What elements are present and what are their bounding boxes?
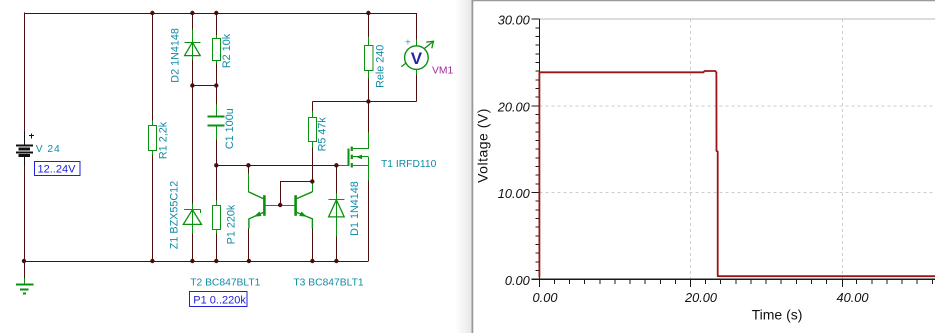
- value box 12..24V: [35, 162, 81, 176]
- svg-text:20.00: 20.00: [497, 99, 531, 114]
- diode D2 1N4148: [184, 13, 200, 86]
- wire top rail: [24, 13, 416, 15]
- label D1 1N4148: [349, 181, 361, 236]
- potentiometer P1 220k: [213, 165, 221, 261]
- svg-text:VM1: VM1: [432, 65, 453, 76]
- x major ticks: [539, 279, 842, 287]
- battery V1 (V 24): [16, 132, 34, 167]
- chart panel shadow strip: [455, 0, 472, 333]
- resistor R2 10k: [213, 13, 221, 86]
- svg-text:Rele 240: Rele 240: [374, 45, 386, 88]
- label V 24: [36, 144, 61, 155]
- node gnd left: [22, 259, 26, 263]
- svg-text:P1 0..220k: P1 0..220k: [193, 294, 246, 306]
- chart panel border: [472, 0, 935, 333]
- label R5 47k: [317, 117, 329, 152]
- zener Z1 BZX55C12: [183, 86, 201, 262]
- wire base tie: [280, 181, 312, 205]
- svg-text:R2 10k: R2 10k: [221, 33, 233, 68]
- svg-text:T3 BC847BLT1: T3 BC847BLT1: [293, 278, 363, 289]
- svg-text:P1 220k: P1 220k: [225, 204, 237, 244]
- svg-text:C1 100u: C1 100u: [224, 108, 236, 149]
- label R2 10k: [221, 33, 233, 68]
- label T1 IRFD110: [381, 159, 437, 170]
- label Z1 BZX55C12: [168, 181, 180, 249]
- transistor T2 BC847BLT1: [248, 165, 265, 261]
- svg-text:+: +: [405, 38, 411, 49]
- node gnd T3: [310, 259, 314, 263]
- svg-text:0.00: 0.00: [505, 273, 531, 288]
- svg-text:10.00: 10.00: [498, 186, 531, 201]
- y axis label 30.00: [498, 13, 531, 28]
- svg-text:Time (s): Time (s): [752, 307, 803, 323]
- svg-text:T2 BC847BLT1: T2 BC847BLT1: [190, 278, 260, 289]
- node gnd R1: [150, 259, 154, 263]
- wire left rail lower: [24, 166, 26, 261]
- node top R2: [214, 11, 218, 15]
- svg-text:R1 2,2k: R1 2,2k: [157, 121, 169, 159]
- svg-text:V: V: [411, 49, 423, 68]
- svg-text:12..24V: 12..24V: [38, 164, 77, 176]
- resistor R5 47k: [309, 102, 317, 182]
- svg-text:0.00: 0.00: [533, 290, 559, 305]
- ground: [16, 261, 34, 294]
- label C1 100u: [224, 108, 236, 149]
- svg-text:D1 1N4148: D1 1N4148: [349, 181, 361, 236]
- vertical gridline 20s: [690, 19, 692, 279]
- plot frame top edge: [539, 18, 935, 20]
- transistor T3 BC847BLT1: [294, 184, 312, 262]
- horizontal gridline 20V: [539, 105, 935, 107]
- label VM1: [432, 65, 453, 76]
- svg-text:30.00: 30.00: [498, 13, 531, 28]
- wire D2-R2 junction: [192, 85, 216, 87]
- mosfet T1 IRFD110: [336, 133, 368, 181]
- node C1/gate: [214, 163, 218, 167]
- y axis label 0.00: [505, 273, 531, 288]
- node gnd D1: [334, 259, 338, 263]
- label T2 BC847BLT1: [190, 278, 260, 289]
- wire left rail upper: [24, 12, 26, 131]
- node top R1: [150, 11, 154, 15]
- label P1 220k: [225, 204, 237, 244]
- label R1 2,2k: [157, 121, 169, 159]
- label Rele 240: [374, 45, 386, 88]
- svg-text:R5 47k: R5 47k: [317, 117, 329, 152]
- svg-text:T1 IRFD110: T1 IRFD110: [381, 159, 437, 170]
- y major ticks: [532, 19, 540, 279]
- svg-text:D2 1N4148: D2 1N4148: [169, 28, 181, 83]
- wire mid rail: [312, 101, 416, 103]
- x axis: [539, 278, 935, 280]
- node top Rele: [366, 11, 370, 15]
- node gnd P1: [214, 259, 218, 263]
- relay coil Rele 240: [365, 13, 374, 102]
- wire bottom rail: [24, 261, 368, 263]
- node D2/R2: [190, 83, 194, 87]
- label D2 1N4148: [169, 28, 181, 83]
- x axis label 40.00: [836, 290, 869, 305]
- y axis title Voltage (V): [475, 108, 491, 183]
- node Rele/drain: [366, 99, 370, 103]
- resistor R1 2,2k: [149, 13, 157, 261]
- node R2/C1: [214, 83, 218, 87]
- wire source down: [368, 181, 370, 262]
- node gnd Z1: [190, 259, 194, 263]
- node gnd T2: [247, 259, 251, 263]
- voltmeter VM1: [401, 13, 433, 102]
- y minor ticks: [536, 28, 540, 271]
- x minor ticks: [555, 279, 933, 284]
- svg-text:20.00: 20.00: [684, 290, 718, 305]
- y axis label 10.00: [498, 186, 531, 201]
- y axis: [538, 19, 540, 279]
- x axis title Time (s): [752, 307, 803, 323]
- capacitor C1 100u: [207, 86, 224, 166]
- vertical gridline 40s: [842, 19, 844, 279]
- node top D2: [190, 11, 194, 15]
- node gate/T2: [246, 163, 250, 167]
- x axis label 0.00: [533, 290, 559, 305]
- wire gate net: [216, 165, 336, 167]
- node base/collector: [310, 179, 314, 183]
- simulation curve VM1 voltage: [539, 71, 935, 277]
- node T2/T3 base: [278, 203, 282, 207]
- label T3 BC847BLT1: [293, 278, 363, 289]
- wire T2/T3 base link: [266, 205, 295, 207]
- svg-text:Voltage (V): Voltage (V): [475, 108, 491, 183]
- svg-text:40.00: 40.00: [836, 290, 869, 305]
- svg-text:V 24: V 24: [36, 144, 61, 155]
- horizontal gridline 10V: [539, 192, 935, 194]
- value box P1 0..220k: [190, 292, 248, 307]
- x axis label 20.00: [684, 290, 718, 305]
- diode D1 1N4148: [328, 165, 344, 261]
- wire drain up: [368, 102, 370, 133]
- node gate/D1: [334, 163, 338, 167]
- y axis label 20.00: [497, 99, 531, 114]
- svg-text:Z1 BZX55C12: Z1 BZX55C12: [168, 181, 180, 249]
